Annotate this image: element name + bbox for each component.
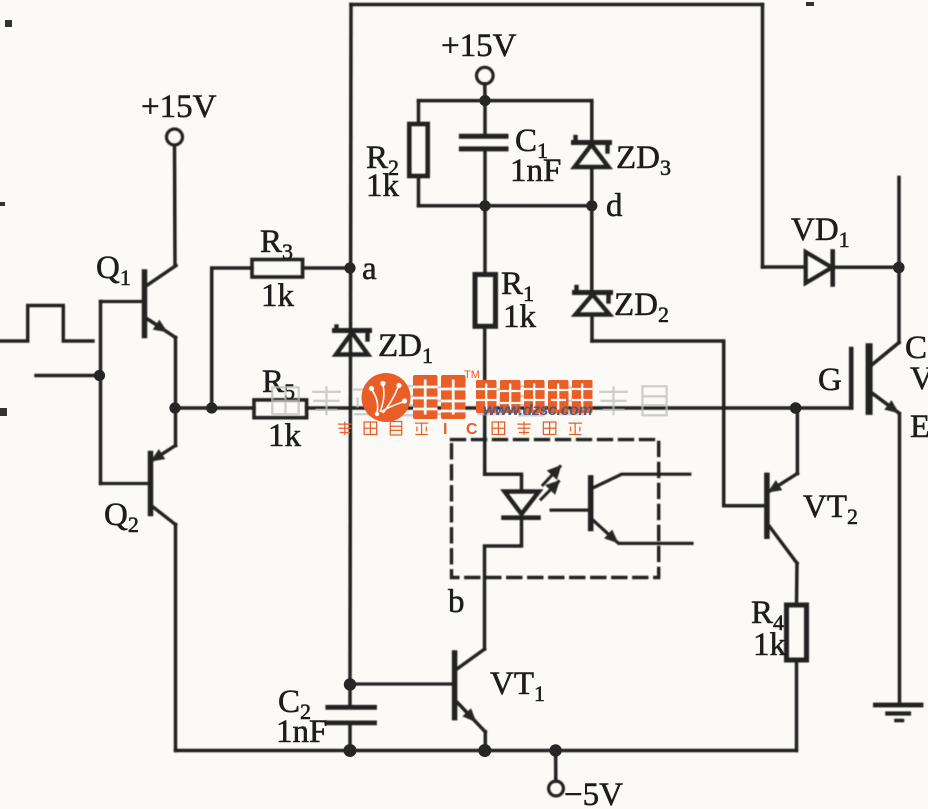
wire top supply row [419,99,592,103]
junction emitters output node [169,402,180,413]
junction VD1 cathode to collector [893,262,905,274]
IGBT V [851,177,899,704]
svg-text:www.dzsc.com: www.dzsc.com [483,402,592,419]
wire base vertical Q1 to Q2 [99,302,103,484]
wire ZD2 bottom to VT2 base [592,341,767,506]
terminal +15V right [477,67,494,84]
zener diode ZD3 [574,137,610,167]
resistor R3 [252,260,303,278]
wire R4 bottom to rail [795,660,799,751]
svg-text:1k: 1k [261,278,295,314]
ground [875,705,921,721]
watermark logo circle [362,373,411,422]
svg-text:b: b [448,584,465,620]
svg-text:I: I [443,421,447,438]
svg-text:C: C [466,421,478,438]
wire LED anode jog [485,474,522,491]
wire d row [419,204,592,208]
svg-text:1k: 1k [503,299,537,335]
watermark gray company text [272,386,666,415]
wire input to base node [36,374,100,378]
capacitor C1 [461,136,506,149]
wire R1 top lead [483,206,487,275]
light arrows [541,467,560,500]
phototransistor of optocoupler [551,474,692,543]
watermark orange title [413,375,593,419]
wire ZD3 leads [590,101,594,141]
svg-text:−5V: −5V [564,777,623,809]
resistor R2 [409,124,427,176]
wire left vertical from top rail down through node a to C2 [350,5,351,685]
svg-text:E: E [910,409,928,445]
node d [586,200,597,211]
svg-text:1nF: 1nF [276,714,327,750]
wire R1 bottom lead down to LED anode jog [483,326,487,474]
node a [344,262,355,273]
optocoupler dashed box [452,440,659,578]
wire Q1 emitter down to Q2 emitter [174,338,178,446]
svg-text:1k: 1k [366,168,400,204]
svg-text:1k: 1k [753,627,787,663]
transistor VT2 [767,408,798,605]
junction gate node [790,402,802,414]
junction +15V top [479,95,490,106]
svg-text:1nF: 1nF [510,153,561,189]
transistor VT1 [350,649,485,750]
junction R3/R5 left [206,402,217,413]
zener diode ZD2 [575,287,611,315]
wire ZD2 leads [590,206,594,291]
junction C2 bottom rail [344,744,357,757]
junction VT1 emitter rail [478,744,491,757]
terminal +15V left [167,129,183,145]
resistor R5 [254,400,307,418]
zener diode ZD1 [335,327,370,355]
capacitor C2 [328,707,375,723]
wire R3 left lead and vertical [212,268,252,408]
wire +15V left down to Q1 collector [173,146,177,266]
svg-text:+15V: +15V [141,89,217,125]
svg-text:1k: 1k [268,418,302,454]
transistor Q1 [101,266,177,338]
junction C2 top / VT1 base [344,678,356,690]
wire output node row to R5 and gate row [176,406,255,410]
wire Q2 collector down to bottom rail [174,525,178,751]
wire bottom rail [176,749,797,752]
wire C2 leads [348,685,352,706]
svg-text:a: a [362,251,377,287]
junction -5V rail [549,744,561,756]
scan specks [0,2,814,416]
wire LED cathode to node b [485,520,522,649]
input waveform [0,306,93,342]
svg-text:G: G [818,362,842,398]
watermark orange slogan [338,422,582,436]
junction input to bases [94,370,105,381]
svg-text:V: V [910,361,928,397]
svg-text:TM: TM [464,369,480,381]
transistor Q2 [101,446,176,525]
wire R3 right lead to node a [303,266,350,270]
resistor R1 [475,275,496,327]
junction C1 bottom [479,200,490,211]
wire gate row from R5 to IGBT gate [307,406,852,410]
svg-text:+15V: +15V [441,28,517,64]
LED of optocoupler [504,492,540,518]
resistor R4 [787,605,807,660]
wire top rail [351,3,763,7]
diode VD1 [763,252,899,285]
wire +15V right to top node [483,84,487,101]
terminal -5V [554,751,558,782]
svg-text:d: d [606,188,623,224]
wire C1 leads [483,101,487,134]
wire R2 leads [417,101,421,124]
wire right vertical from top rail down to VD1 anode [761,5,765,268]
